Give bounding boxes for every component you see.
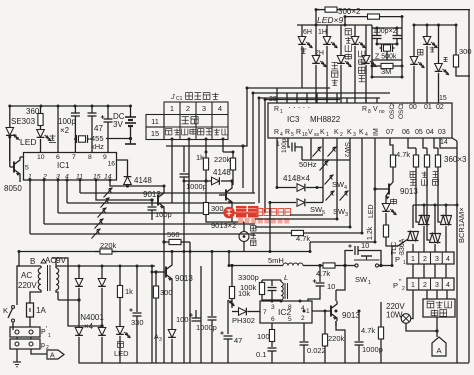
- IC2 box: [260, 301, 312, 323]
- label strong natural wind vertical: [359, 51, 365, 82]
- svg-text:K: K: [359, 129, 364, 136]
- resistor 300 supply: [153, 270, 172, 363]
- svg-text:1k: 1k: [196, 153, 204, 162]
- svg-text:7: 7: [72, 154, 76, 161]
- resistor 1k: [196, 146, 209, 176]
- wire triac common rail: [413, 141, 457, 364]
- svg-text:10W: 10W: [386, 311, 403, 320]
- svg-text:5mH: 5mH: [268, 256, 284, 265]
- svg-text:1k: 1k: [125, 287, 133, 296]
- svg-text:': ': [46, 326, 47, 333]
- svg-text:R: R: [285, 129, 290, 136]
- transistor 9013 fourth: [331, 290, 360, 326]
- bridge diode 1: [75, 266, 83, 328]
- svg-text:1: 1: [368, 280, 371, 286]
- svg-text:R: R: [362, 106, 367, 113]
- wire mid vertical a: [189, 252, 191, 364]
- LED mid: [423, 25, 437, 103]
- svg-text:100p: 100p: [281, 138, 288, 153]
- svg-text:06: 06: [402, 129, 410, 136]
- label Jq keyboard matrix title: [170, 93, 219, 102]
- wire bridge rail top: [58, 266, 155, 300]
- wire junction dots: [8, 8, 458, 312]
- LEDs indicator group left: [298, 25, 376, 103]
- svg-text:4.7k: 4.7k: [296, 234, 310, 243]
- LED yellow: [368, 199, 396, 222]
- capacitor 100p base: [148, 198, 172, 220]
- svg-text:01: 01: [424, 104, 432, 111]
- transformer primary: [17, 266, 41, 300]
- svg-text:1: 1: [326, 132, 329, 138]
- capacitor 100p osc1: [373, 28, 382, 39]
- svg-text:4: 4: [446, 256, 450, 263]
- svg-text:1: 1: [399, 103, 405, 106]
- battery DC 3V: [113, 106, 136, 144]
- resistor 4.7k pin07: [390, 138, 410, 172]
- switch SW1: [342, 246, 392, 286]
- label AC9V: [41, 256, 67, 265]
- wire bottom rail: [79, 362, 469, 364]
- svg-text:04: 04: [426, 129, 434, 136]
- svg-text:9013: 9013: [143, 190, 161, 199]
- label 100p x2: [373, 28, 397, 35]
- wire 5mH rail: [229, 252, 303, 266]
- svg-text:3: 3: [159, 337, 162, 343]
- svg-text:J: J: [170, 94, 175, 101]
- svg-text:R: R: [274, 106, 279, 113]
- svg-text:330: 330: [131, 318, 144, 327]
- svg-text:10: 10: [361, 241, 369, 250]
- resistor 300 mid: [203, 179, 232, 222]
- svg-text:B: B: [30, 257, 35, 266]
- capacitor 3300p: [238, 273, 277, 300]
- svg-text:3: 3: [435, 282, 439, 289]
- LED strong: [435, 25, 449, 103]
- watermark subtext: [238, 218, 289, 224]
- capacitor 47 electro: [220, 300, 242, 364]
- svg-text:no: no: [379, 109, 385, 115]
- svg-text:03: 03: [438, 129, 446, 136]
- svg-text:3: 3: [435, 256, 439, 263]
- wire long 220k rail: [19, 241, 310, 254]
- diode 4148 b: [270, 199, 323, 252]
- keypad key switches: [92, 188, 113, 239]
- resistor 560: [162, 230, 190, 252]
- diode 4148 a: [277, 138, 323, 191]
- svg-text:1H: 1H: [318, 29, 327, 36]
- wire mid vertical b: [190, 266, 201, 364]
- svg-text:L: L: [284, 273, 288, 282]
- svg-text:BCR1AM×: BCR1AM×: [457, 207, 466, 243]
- svg-text:1000p: 1000p: [196, 323, 217, 332]
- svg-text:2: 2: [301, 315, 305, 322]
- wires crystal cols: [377, 39, 397, 44]
- svg-text:10: 10: [37, 154, 45, 161]
- wire 4.7k mid: [255, 230, 362, 243]
- watermark logo circle: [223, 207, 235, 219]
- wire 9013 emitter: [336, 321, 345, 364]
- svg-text:0.022: 0.022: [307, 346, 326, 355]
- resistors 360x3: [408, 138, 467, 170]
- label B: [30, 257, 35, 266]
- wires 360 to gates: [416, 170, 441, 240]
- diode 4148 on pin16: [110, 160, 164, 188]
- transistor 9013 driver: [373, 172, 418, 203]
- wire bus rail 3: [259, 98, 380, 203]
- svg-text:220k: 220k: [100, 241, 117, 250]
- svg-text:02: 02: [436, 104, 444, 111]
- svg-text:4148: 4148: [134, 176, 152, 185]
- label SW2: [343, 142, 350, 157]
- svg-text:8: 8: [368, 109, 371, 115]
- svg-text:IC1: IC1: [57, 161, 70, 170]
- switch K: [3, 306, 15, 323]
- svg-text:360×3: 360×3: [444, 155, 467, 164]
- wire P2 pin1 to lamp: [411, 290, 413, 319]
- svg-text:×4: ×4: [84, 322, 94, 331]
- svg-text:3V: 3V: [113, 120, 123, 129]
- label SE303: [11, 117, 36, 126]
- plug A left: [31, 350, 64, 360]
- svg-text:V: V: [308, 129, 313, 136]
- wire 4.7k row: [303, 263, 342, 278]
- svg-text:6: 6: [56, 154, 60, 161]
- svg-text:2: 2: [343, 154, 349, 157]
- svg-text:SE303: SE303: [11, 117, 36, 126]
- svg-text:6: 6: [271, 316, 275, 323]
- label mid: [430, 47, 435, 52]
- IC1 bottom pin numbers: [28, 174, 112, 181]
- svg-text:220V: 220V: [18, 281, 37, 290]
- transistor 9013 third: [152, 252, 193, 330]
- svg-text:3300p: 3300p: [238, 273, 259, 282]
- svg-text:1: 1: [306, 308, 310, 315]
- resistor 220k pullup: [214, 152, 236, 176]
- diode A3: [154, 330, 176, 364]
- label IN4001 x4: [78, 313, 104, 331]
- photodiode SE303: [6, 128, 20, 162]
- svg-text:4.7k: 4.7k: [361, 326, 375, 335]
- capacitor 47 electrolytic: [94, 106, 113, 153]
- svg-text:300: 300: [211, 204, 224, 213]
- label weak: [418, 50, 423, 55]
- svg-text:P: P: [393, 281, 398, 290]
- svg-text:C1: C1: [176, 96, 183, 102]
- svg-text:K: K: [3, 306, 8, 315]
- connector P1 left: [10, 326, 51, 339]
- label red: [301, 48, 307, 54]
- wire LED block top rail: [297, 24, 372, 26]
- svg-text:5: 5: [25, 165, 29, 172]
- svg-text:4148: 4148: [213, 168, 231, 177]
- svg-text:LED: LED: [114, 349, 129, 358]
- label AC 220V: [18, 271, 37, 290]
- svg-text:300: 300: [160, 288, 173, 297]
- wire AC left drop: [17, 252, 19, 306]
- svg-text:PH302: PH302: [232, 316, 255, 325]
- svg-text:4: 4: [365, 132, 368, 138]
- IC3 pin 14: [440, 138, 457, 146]
- wires connectors: [13, 330, 31, 356]
- diode 4148 keypad: [184, 168, 233, 185]
- photodiode PH302: [228, 300, 260, 325]
- bridge diode 3: [75, 328, 83, 364]
- wire bus rail 1: [166, 88, 330, 146]
- wire pin03 corner: [440, 138, 457, 148]
- wire pin6: [57, 106, 59, 153]
- wire ground stub: [13, 356, 21, 367]
- lamp 220V 10W: [386, 302, 439, 333]
- svg-text:1: 1: [170, 104, 174, 113]
- triac TLC336A: [391, 205, 419, 255]
- resistor 300 right: [453, 25, 471, 76]
- label 2H: [315, 50, 324, 57]
- svg-text:· · · · ·: · · · · ·: [288, 103, 310, 112]
- switch SW4 arrows: [325, 175, 348, 192]
- svg-text:220k: 220k: [214, 155, 231, 164]
- keyboard matrix table: [146, 102, 228, 140]
- capacitor 1000p keypad: [180, 146, 207, 364]
- IC1 top pin numbers: [25, 154, 115, 172]
- label IC1: [57, 161, 70, 170]
- svg-text:47: 47: [94, 124, 103, 133]
- svg-text:2: 2: [423, 256, 427, 263]
- transformer core: [48, 265, 51, 291]
- svg-text:R: R: [296, 129, 301, 136]
- svg-text:05: 05: [415, 129, 423, 136]
- connector P2 box: [393, 278, 454, 292]
- capacitor 1000p mid: [196, 252, 217, 364]
- svg-text:1000p: 1000p: [362, 345, 383, 354]
- matrix column headers: [170, 104, 222, 113]
- svg-text:AC: AC: [21, 271, 32, 280]
- resistor 1.2k: [367, 222, 398, 246]
- svg-text:SW: SW: [355, 275, 368, 284]
- svg-text:5: 5: [288, 316, 292, 323]
- capacitor 0.022: [300, 323, 326, 364]
- wires P2 to motor: [427, 290, 447, 299]
- svg-text:3: 3: [345, 212, 348, 218]
- svg-text:7: 7: [263, 309, 267, 316]
- resistor 220k out: [312, 311, 345, 364]
- svg-text:9: 9: [103, 154, 107, 161]
- wire rail 160: [302, 159, 350, 161]
- svg-text:IM: IM: [373, 128, 380, 136]
- wire crystal block frame: [372, 25, 402, 77]
- triac BCR3: [441, 205, 452, 252]
- label SW5: [310, 205, 348, 218]
- svg-text:4148×4: 4148×4: [283, 174, 310, 183]
- svg-text:IC3: IC3: [287, 115, 300, 124]
- wires keypad row lines: [30, 193, 255, 234]
- svg-text:3: 3: [202, 104, 206, 113]
- svg-text:K: K: [334, 129, 339, 136]
- svg-text:4: 4: [446, 282, 450, 289]
- svg-text:15: 15: [151, 129, 159, 138]
- wires IC1 scan lines down: [30, 180, 80, 234]
- IC3 pin 28: [269, 96, 277, 103]
- svg-text:A: A: [50, 353, 55, 360]
- wire top rail of IC1 block: [10, 105, 131, 107]
- switch SW2 arrows: [313, 147, 337, 157]
- wire K down: [12, 322, 14, 330]
- svg-text:8050: 8050: [4, 184, 22, 193]
- svg-text:1: 1: [280, 109, 283, 115]
- svg-text:R: R: [274, 129, 279, 136]
- LED green: [114, 327, 130, 364]
- labels wind vertical: [410, 172, 438, 186]
- svg-text:LED×9: LED×9: [317, 15, 343, 25]
- svg-text:100p: 100p: [155, 210, 172, 219]
- wires IC3 R pins up: [277, 88, 377, 103]
- wire collector up: [336, 264, 347, 290]
- svg-text:4: 4: [280, 132, 283, 138]
- wires P1 to P2: [413, 264, 446, 278]
- IC3 bottom row labels: [274, 128, 446, 138]
- IC2 pin numbers: [263, 304, 310, 323]
- bridge diode 4: [98, 328, 106, 364]
- svg-text:×2: ×2: [60, 126, 70, 135]
- svg-text:1: 1: [411, 282, 415, 289]
- svg-text:ss: ss: [314, 132, 320, 138]
- svg-text:4: 4: [218, 104, 222, 113]
- inductor L: [281, 273, 288, 301]
- svg-text:4: 4: [344, 185, 347, 191]
- svg-text:8: 8: [288, 304, 292, 311]
- svg-text:1A: 1A: [36, 306, 46, 315]
- capacitor 100p ic3: [281, 138, 302, 160]
- svg-text:1000p: 1000p: [186, 182, 207, 191]
- svg-text:LED: LED: [20, 137, 37, 147]
- svg-text:47: 47: [234, 336, 242, 345]
- label weak natural wind vertical: [345, 29, 351, 60]
- wire bus rail 2: [253, 93, 390, 193]
- capacitor 10 right: [308, 264, 335, 301]
- resistor 360: [26, 106, 43, 127]
- svg-text:8: 8: [88, 154, 92, 161]
- IC3 osc labels vertical: [389, 103, 405, 119]
- IC1 box: [24, 153, 117, 181]
- capacitor 100p osc2: [393, 28, 402, 39]
- matrix row labels 11 15: [151, 117, 159, 138]
- wire left vertical to SE303: [9, 106, 11, 127]
- svg-text:5: 5: [291, 132, 294, 138]
- svg-text:2: 2: [423, 282, 427, 289]
- svg-text:00: 00: [409, 104, 417, 111]
- plug A right: [432, 337, 446, 356]
- wire top rail A with resistor 300: [316, 7, 470, 25]
- wire sw1 branch: [392, 245, 398, 247]
- svg-text:360: 360: [26, 107, 40, 116]
- motor box: [423, 299, 455, 317]
- wire motor to plug: [436, 317, 438, 337]
- transistor 9013 first: [96, 180, 164, 364]
- label IC3 MH8822: [287, 115, 341, 124]
- wire osc mid: [372, 43, 402, 45]
- switch SW5 arrows: [326, 191, 349, 201]
- capacitor 0.1: [256, 343, 277, 364]
- capacitor 100p x2 second: [88, 106, 97, 153]
- capacitor 100p x2 first: [58, 106, 80, 153]
- svg-text:2: 2: [390, 103, 396, 106]
- svg-text:220k: 220k: [328, 334, 345, 343]
- svg-text:SW: SW: [343, 142, 350, 154]
- label LED x9: [317, 15, 343, 25]
- svg-text:V: V: [373, 106, 378, 113]
- crystal Z 500k: [375, 44, 397, 61]
- svg-text:0.1: 0.1: [256, 350, 266, 359]
- transformer secondary: [52, 258, 59, 300]
- capacitor 100 electro: [189, 310, 200, 330]
- label 4148x4: [283, 174, 310, 183]
- capacitor 10 sw: [343, 241, 382, 267]
- svg-text:A: A: [436, 346, 441, 355]
- svg-text:1: 1: [48, 333, 51, 339]
- IC3 pin 15: [439, 95, 447, 102]
- matrix cell lighting: [182, 117, 198, 124]
- svg-text:P: P: [395, 255, 400, 264]
- LED red indicator: [20, 127, 56, 153]
- svg-text:50Hz: 50Hz: [299, 160, 317, 169]
- wire secondary bottom to bridge: [58, 299, 79, 301]
- svg-text:1.2k: 1.2k: [367, 226, 374, 240]
- svg-text:9013: 9013: [342, 311, 360, 320]
- svg-text:100p: 100p: [58, 117, 76, 126]
- wires K corners left: [255, 215, 375, 242]
- triac BCR2: [430, 205, 441, 252]
- svg-text:2H: 2H: [315, 50, 324, 57]
- svg-text:11: 11: [151, 117, 159, 126]
- svg-text:1: 1: [403, 260, 406, 266]
- svg-text:IN4001: IN4001: [78, 313, 104, 322]
- svg-text:K: K: [320, 129, 325, 136]
- svg-text:100: 100: [176, 315, 189, 324]
- svg-text:p: p: [41, 342, 45, 349]
- watermark weiku: [236, 206, 259, 218]
- svg-text:4.7k: 4.7k: [316, 269, 330, 278]
- matrix cells functions: [166, 129, 229, 135]
- LED weak: [410, 25, 424, 103]
- triac BCR1: [419, 205, 430, 252]
- transistor 8050: [4, 137, 24, 193]
- wire supply right: [151, 266, 153, 364]
- IC3 top row labels: [274, 103, 444, 115]
- svg-text:LED: LED: [368, 204, 375, 218]
- svg-text:2: 2: [340, 132, 343, 138]
- label 1H: [318, 29, 327, 36]
- wire right led block rail: [413, 24, 456, 26]
- svg-text:4.7k: 4.7k: [396, 150, 410, 159]
- svg-text:07: 07: [386, 129, 394, 136]
- fuse 1A: [27, 300, 47, 327]
- svg-text:1: 1: [411, 256, 415, 263]
- label strong small: [443, 57, 447, 61]
- svg-text:3M: 3M: [381, 67, 391, 76]
- resistor 3M: [372, 63, 402, 76]
- IC3 pin 1: [276, 141, 280, 148]
- wire mid drop: [309, 242, 311, 252]
- wire top right drop: [468, 10, 470, 363]
- svg-text:10: 10: [302, 132, 308, 138]
- transistor 9013 second: [211, 179, 236, 230]
- wire bus corner: [241, 144, 244, 188]
- wire 220k top: [206, 151, 233, 153]
- svg-text:2: 2: [186, 104, 190, 113]
- wires matrix columns down: [172, 139, 223, 213]
- svg-text:MH8822: MH8822: [310, 115, 341, 124]
- resistor 100k: [240, 280, 265, 301]
- watermark text line: [257, 209, 291, 216]
